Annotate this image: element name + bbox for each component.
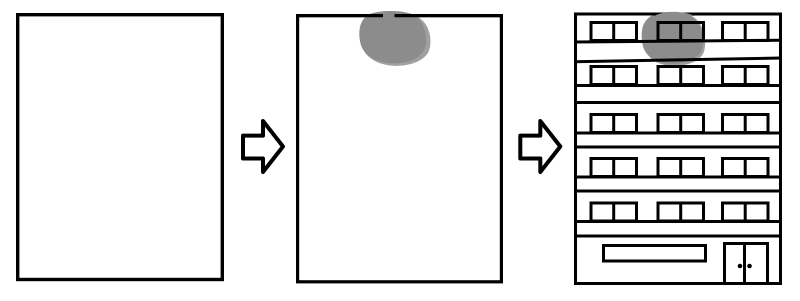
- panel 2: paper rectangle: [298, 16, 502, 282]
- building blob (gray scribble under the lines): [642, 12, 703, 64]
- floor line A1: [574, 40, 782, 42]
- door center line: [743, 242, 746, 283]
- panel 2 top border redrawn over blob: [298, 14, 502, 17]
- ground floor sign rectangle: [604, 246, 706, 262]
- building outline: [576, 14, 781, 284]
- windows row 5: [591, 203, 768, 221]
- windows row 3: [591, 115, 768, 133]
- building blob fringe (lighter): [644, 13, 705, 66]
- windows row 1: [591, 23, 768, 41]
- blob shadow (lighter fringe) on panel 2: [360, 11, 430, 66]
- floor line B1: [574, 58, 782, 62]
- floor line B4: [574, 190, 782, 193]
- panel 1: empty paper rectangle: [18, 15, 223, 280]
- floor line A3: [574, 132, 782, 135]
- floor line A4: [574, 176, 782, 179]
- door handle left: [738, 264, 743, 269]
- door: [725, 244, 768, 284]
- floor line A2: [574, 84, 782, 87]
- floor line B5: [574, 235, 782, 238]
- floor line A5: [574, 220, 782, 223]
- floor line B2: [574, 101, 782, 104]
- building blob top fringe over border: [655, 12, 694, 16]
- floor line B3: [574, 146, 782, 149]
- windows row 2: [591, 67, 768, 85]
- blob (gray scribble) on panel 2: [359, 11, 426, 63]
- windows row 4: [591, 159, 768, 177]
- arrow 1: [243, 121, 283, 172]
- door handle right: [747, 264, 752, 269]
- arrow 2: [520, 121, 560, 172]
